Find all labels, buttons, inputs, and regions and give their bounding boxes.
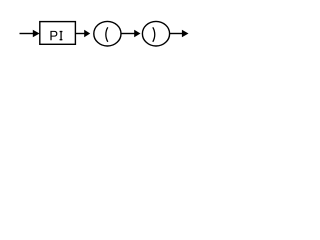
wire ) to exit xyxy=(170,33,183,35)
arrowhead into ( xyxy=(84,30,90,38)
wire box to first paren xyxy=(75,33,84,35)
wire ( to ) xyxy=(121,33,135,35)
label ( as arc xyxy=(106,27,108,42)
terminal box PI xyxy=(40,22,76,45)
circle terminal ) xyxy=(142,21,169,46)
label I (crossbar style) xyxy=(60,31,63,40)
railroad syntax diagram: PI ( ) xyxy=(0,0,190,58)
label P xyxy=(50,31,57,40)
label ) as arc xyxy=(153,27,155,42)
wire entry segment xyxy=(20,33,34,35)
circle terminal ( xyxy=(94,21,121,46)
arrowhead into ) xyxy=(134,30,140,38)
arrowhead into PI box xyxy=(33,30,40,38)
exit arrowhead xyxy=(182,30,189,38)
